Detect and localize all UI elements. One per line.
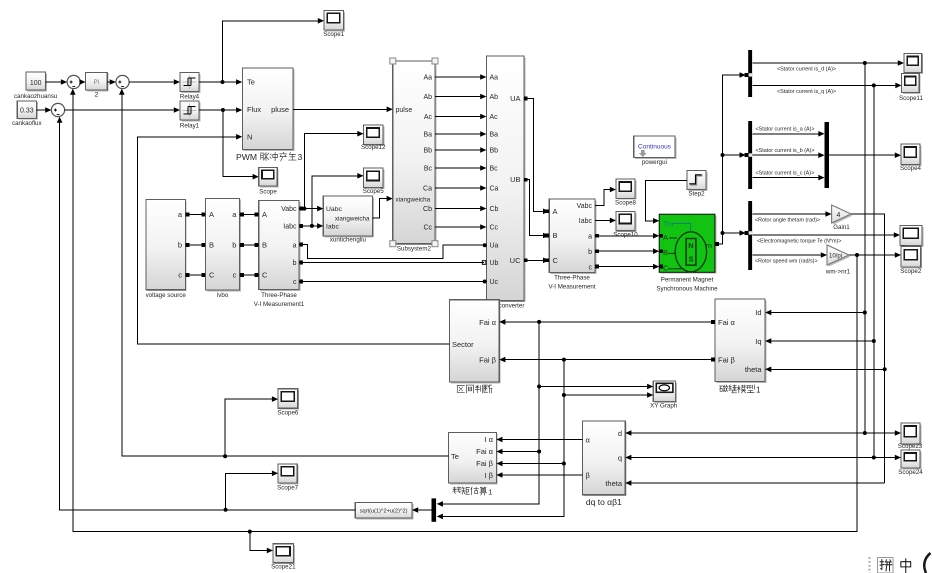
- svg-text:Scope10: Scope10: [613, 231, 638, 238]
- wire 0.33 to sum3: [37, 107, 52, 113]
- svg-text:c: c: [293, 279, 297, 286]
- wire sum3 to Relay1: [65, 107, 180, 113]
- sum junction flux (sum3): [51, 103, 64, 116]
- svg-text:sqrt(u(1)^2+u(2)^2): sqrt(u(1)^2+u(2)^2): [360, 509, 408, 515]
- svg-text:C: C: [209, 271, 215, 280]
- svg-text:Ua: Ua: [490, 243, 499, 250]
- constant cankaozhuansu value 100: [14, 72, 58, 100]
- svg-text:B: B: [663, 248, 668, 257]
- block Three-Phase V-I Measurement (second): [548, 199, 596, 290]
- wire Vabc to Scope8: [595, 187, 616, 206]
- label Scope10 over wire: [613, 231, 638, 238]
- svg-text:Relay4: Relay4: [180, 94, 200, 101]
- svg-text:Iq: Iq: [755, 337, 761, 346]
- wire rotor speed wm to gain: [753, 252, 827, 258]
- constant cankaoflux value 0.33: [12, 101, 42, 127]
- svg-text:V-I Measurement1: V-I Measurement1: [254, 301, 305, 308]
- scope Scope23: [898, 423, 923, 450]
- svg-text:a: a: [293, 242, 297, 249]
- svg-text:A: A: [553, 207, 558, 216]
- wire dq alpha to torque est I alpha: [496, 437, 582, 443]
- net stator current is_q (bus1 to Scope11b, Iq, q, Scope24): [625, 83, 901, 461]
- wire sum2 to Relay4: [129, 79, 180, 85]
- svg-text:Ac: Ac: [490, 114, 499, 121]
- svg-text:Vabc: Vabc: [577, 203, 593, 210]
- svg-text:pulse: pulse: [396, 107, 413, 114]
- svg-text:Ca: Ca: [423, 186, 432, 193]
- svg-text:Bc: Bc: [424, 166, 433, 173]
- wire phase a to converter Ua: [299, 243, 487, 259]
- svg-text:A: A: [262, 210, 267, 219]
- label <Stator current is_b (A)>: [756, 148, 815, 154]
- mux for abc currents: [825, 122, 830, 188]
- svg-text:Iabc: Iabc: [579, 218, 593, 225]
- block 转矩估算1 (torque estimator): [449, 432, 498, 496]
- svg-text:Scope4: Scope4: [900, 165, 922, 172]
- svg-text:xiangweicha: xiangweicha: [335, 216, 370, 223]
- svg-text:a: a: [588, 234, 592, 241]
- svg-text:Scope6: Scope6: [277, 409, 299, 416]
- wire electromagnetic torque to scope: [753, 232, 900, 238]
- svg-text:b: b: [178, 241, 182, 250]
- svg-text:0.33: 0.33: [20, 108, 34, 115]
- scope Scope6: [277, 389, 299, 417]
- svg-text:Scope1: Scope1: [323, 31, 345, 38]
- scope Scope8: [615, 179, 637, 206]
- bus selector 1 (is_d, is_q): [748, 50, 752, 97]
- block dq to αβ1: [582, 421, 626, 507]
- label <Electromagnetic torque Te (N*m)>: [757, 239, 841, 245]
- wires voltage source to lvbo (a,b,c): [185, 213, 205, 277]
- svg-text:<Electromagnetic torque Te (N*: <Electromagnetic torque Te (N*m)>: [757, 239, 841, 245]
- block converter: [486, 56, 525, 309]
- svg-text:b: b: [293, 260, 297, 267]
- XY Graph block: [650, 381, 678, 410]
- svg-text:Aa: Aa: [423, 75, 432, 82]
- svg-text:Uc: Uc: [490, 279, 499, 286]
- svg-text:Scope21: Scope21: [271, 564, 296, 571]
- svg-text:<Stator current is_d (A)>: <Stator current is_d (A)>: [777, 67, 836, 73]
- block lvbo (filter): [206, 198, 241, 298]
- svg-text:Fai α: Fai α: [479, 318, 497, 327]
- wire PWM pluse to Subsystem2: [293, 107, 393, 113]
- svg-text:V-I Measurement: V-I Measurement: [548, 283, 595, 290]
- PWM pulse generator block PWM脉冲产生3: [236, 68, 303, 162]
- svg-text:I α: I α: [484, 435, 493, 444]
- svg-text:m: m: [706, 241, 712, 250]
- wire Sector to PWM N input: [138, 134, 450, 344]
- wire dq beta to torque est I beta: [496, 472, 582, 478]
- svg-text:<Stator current is_q (A)>: <Stator current is_q (A)>: [777, 89, 836, 95]
- svg-text:β: β: [586, 471, 591, 480]
- wire xiangweicha to Subsystem2: [373, 196, 393, 218]
- svg-text:Te: Te: [451, 452, 459, 461]
- svg-text:Iabc: Iabc: [283, 223, 297, 230]
- wire is_b to mux: [753, 152, 825, 158]
- Fcn block sqrt(u(1)^2+u(2)^2): [355, 503, 413, 520]
- svg-text:XY Graph: XY Graph: [650, 403, 678, 410]
- svg-text:wm->nr1: wm->nr1: [825, 269, 851, 276]
- svg-text:pluse: pluse: [271, 105, 289, 114]
- svg-text:PI: PI: [94, 80, 100, 86]
- svg-text:Fai β: Fai β: [718, 356, 736, 365]
- svg-text:<Stator current is_c (A)>: <Stator current is_c (A)>: [756, 170, 815, 176]
- svg-text:UA: UA: [510, 94, 520, 103]
- net Fai alpha (flux model to sector, XY, torque est, mux): [437, 319, 715, 507]
- relay Relay4 (torque hysteresis): [180, 73, 201, 101]
- wires Subsystem2 outputs to converter (Aa..Cc): [435, 74, 486, 230]
- svg-text:Ca: Ca: [490, 186, 499, 193]
- svg-text:Three-Phase: Three-Phase: [261, 292, 297, 299]
- wire Iabc to Scope10: [595, 218, 616, 224]
- svg-text:Iabc: Iabc: [326, 223, 339, 230]
- svg-text:C: C: [262, 271, 268, 280]
- gain wm->nr1 (10/pi): [825, 245, 851, 276]
- label <Rotor speed wm (rad/s)>: [755, 259, 818, 265]
- svg-text:Ab: Ab: [490, 94, 499, 101]
- net Fai beta (flux model to sector, XY, torque est, mux): [437, 357, 715, 519]
- sum junction speed (sum1): [67, 75, 80, 88]
- wire mux to sqrt Fcn: [412, 507, 432, 513]
- svg-text:S: S: [688, 255, 693, 264]
- block xuntichengliu (flux observer): [323, 196, 374, 244]
- svg-text:xiangweicha: xiangweicha: [396, 197, 431, 204]
- svg-text:Fai β: Fai β: [479, 356, 497, 365]
- svg-text:b: b: [588, 249, 592, 256]
- svg-text:Aa: Aa: [490, 75, 499, 82]
- svg-text:Tm: Tm: [663, 221, 673, 228]
- wires V-I Measurement a,b,c to PMSM A,B,C: [595, 233, 663, 269]
- svg-text:powergui: powergui: [642, 159, 667, 166]
- wire mux to Scope4: [829, 152, 901, 158]
- svg-text:Fai β: Fai β: [476, 459, 494, 468]
- wire converter UC to V-I Measurement C: [524, 258, 549, 264]
- svg-text:cankaoflux: cankaoflux: [12, 120, 42, 127]
- wire converter UA to V-I Measurement A: [524, 97, 549, 214]
- svg-text:C: C: [663, 264, 669, 273]
- svg-text:<Rotor angle thetam (rad)>: <Rotor angle thetam (rad)>: [755, 218, 820, 224]
- svg-text:cankaozhuansu: cankaozhuansu: [14, 93, 58, 100]
- scope pair Scope11: [899, 54, 924, 103]
- svg-text:Scope5: Scope5: [363, 188, 385, 195]
- wire converter UB to V-I Measurement B: [524, 178, 549, 239]
- svg-text:Ab: Ab: [423, 94, 432, 101]
- scope Scope10: [616, 211, 636, 232]
- wire sum1 to PI: [79, 79, 85, 85]
- svg-text:voltage source: voltage source: [146, 292, 187, 299]
- wire Step2 to PMSM Tm: [646, 181, 688, 224]
- label <Rotor angle thetam (rad)>: [755, 218, 820, 224]
- svg-text:N: N: [688, 241, 693, 250]
- net Gain1 output theta*4 to flux model and dq: [625, 214, 887, 486]
- svg-text:Continuous: Continuous: [638, 144, 672, 151]
- block 区间判断 (sector detect): [450, 300, 501, 393]
- svg-text:10/pi: 10/pi: [829, 254, 842, 260]
- label <Stator current is_d (A)>: [777, 67, 836, 73]
- label <Stator current is_c (A)>: [756, 170, 815, 176]
- scope Scope12: [361, 125, 386, 151]
- wire phase c to converter Uc: [299, 280, 487, 284]
- svg-text:c: c: [178, 271, 182, 280]
- subsystem Subsystem2 (with selection handles): [390, 58, 438, 253]
- svg-text:N: N: [247, 133, 252, 142]
- svg-text:Bb: Bb: [490, 148, 499, 155]
- svg-text:q: q: [618, 454, 622, 463]
- svg-text:3: 3: [298, 152, 303, 162]
- wire Relay4 to PWM Te, branch to Scope1: [199, 18, 324, 85]
- svg-text:c: c: [233, 271, 237, 280]
- svg-text:<Rotor speed wm (rad/s)>: <Rotor speed wm (rad/s)>: [755, 259, 818, 265]
- svg-text:Subsystem2: Subsystem2: [397, 246, 432, 253]
- svg-text:Step2: Step2: [688, 191, 705, 198]
- scope Scope4: [900, 144, 922, 172]
- svg-text:Cb: Cb: [423, 206, 432, 213]
- wire phase b to converter Ub: [299, 261, 486, 265]
- PI controller block: [86, 72, 109, 98]
- svg-text:<Stator current is_a (A)>: <Stator current is_a (A)>: [756, 127, 815, 133]
- svg-text:I β: I β: [485, 471, 494, 480]
- svg-text:Ba: Ba: [490, 132, 499, 139]
- gain Gain1 (x4): [832, 205, 853, 231]
- svg-text:B: B: [209, 241, 214, 250]
- wire 100 to sum1: [46, 79, 68, 85]
- svg-text:PWM: PWM: [236, 152, 257, 162]
- svg-text:A: A: [209, 210, 214, 219]
- svg-text:α: α: [586, 436, 591, 445]
- wire speed feedback to sum1, branch Scope21: [70, 89, 857, 554]
- wire Vabc to xuntichengliu Uabc, branch Scope12: [299, 131, 363, 212]
- scope pair Scope2: [900, 225, 923, 275]
- svg-text:Scope11: Scope11: [899, 95, 924, 102]
- svg-text:lvbo: lvbo: [217, 292, 229, 299]
- svg-text:Scope12: Scope12: [361, 144, 386, 151]
- svg-text:Cb: Cb: [490, 206, 499, 213]
- svg-text:Ub: Ub: [490, 260, 499, 267]
- svg-text:theta: theta: [605, 479, 623, 488]
- wire PI to sum2: [107, 79, 116, 85]
- svg-text:Id: Id: [755, 308, 761, 317]
- svg-text:Ba: Ba: [423, 132, 432, 139]
- wire Relay1 to PWM Flux, branch to Scope: [199, 107, 259, 179]
- svg-text:Flux: Flux: [247, 105, 261, 114]
- wire flux magnitude feedback to sum3, branch Scope7: [57, 117, 356, 512]
- wire PMSM m output to bus selectors: [715, 72, 748, 246]
- wires lvbo to V-I Measurement1 (a,b,c): [240, 213, 259, 277]
- svg-text:UC: UC: [510, 256, 521, 265]
- svg-text:100: 100: [30, 80, 42, 87]
- label <Stator current is_q (A)>: [777, 89, 836, 95]
- wire rotor angle to Gain1: [753, 211, 832, 217]
- svg-text:C: C: [553, 256, 559, 265]
- svg-text:theta: theta: [745, 365, 763, 374]
- svg-text:Bb: Bb: [423, 148, 432, 155]
- svg-text:Scope23: Scope23: [898, 443, 923, 450]
- svg-text:xuntichengliu: xuntichengliu: [330, 237, 367, 244]
- bus selector 3 (rotor): [748, 201, 752, 270]
- wire is_c to mux: [753, 175, 825, 181]
- scope Scope24: [898, 450, 923, 476]
- scope Scope7: [277, 464, 299, 491]
- scope Scope5: [363, 168, 385, 195]
- svg-text:2: 2: [95, 92, 99, 99]
- mux for flux magnitude: [432, 498, 437, 521]
- svg-text:1: 1: [756, 386, 761, 395]
- svg-text:Sector: Sector: [452, 340, 474, 349]
- svg-text:Cc: Cc: [423, 225, 432, 232]
- svg-text:d: d: [618, 429, 622, 438]
- bus selector 2 (is_a,b,c): [748, 121, 752, 189]
- svg-text:Scope8: Scope8: [615, 199, 637, 206]
- powergui block (Continuous): [634, 136, 677, 166]
- svg-text:dq to αβ1: dq to αβ1: [586, 497, 622, 507]
- svg-text:Relay1: Relay1: [180, 122, 200, 129]
- net stator current is_d (bus1 to Scope11, Id, d, Scope23): [625, 60, 904, 436]
- svg-text:Bc: Bc: [490, 166, 499, 173]
- svg-text:Scope24: Scope24: [898, 469, 923, 476]
- scope Scope (flux band): [259, 167, 279, 195]
- relay Relay1 (flux hysteresis): [180, 101, 201, 129]
- svg-text:Permanent Magnet: Permanent Magnet: [661, 276, 714, 283]
- svg-text:converter: converter: [499, 302, 525, 309]
- svg-text:Synchronous Machine: Synchronous Machine: [656, 285, 718, 292]
- label <Stator current is_a (A)>: [756, 127, 815, 133]
- svg-text:Ac: Ac: [424, 114, 433, 121]
- wire gain wm->nr1 to Scope2 (dot to feedback): [849, 252, 901, 258]
- svg-text:Scope7: Scope7: [277, 484, 299, 491]
- block voltage source: [146, 200, 187, 299]
- svg-text:<Stator current is_b (A)>: <Stator current is_b (A)>: [756, 148, 815, 154]
- svg-text:1: 1: [488, 488, 492, 497]
- svg-text:UB: UB: [510, 175, 520, 184]
- svg-text:Gain1: Gain1: [833, 224, 850, 231]
- svg-text:Scope2: Scope2: [900, 268, 922, 275]
- wire Te estimate feedback to sum2, branch Scope6: [119, 89, 449, 459]
- svg-text:Te: Te: [247, 78, 255, 87]
- svg-text:4: 4: [837, 212, 841, 219]
- block 磁链模型1 (flux model): [715, 299, 767, 395]
- sum junction torque (sum2): [116, 75, 129, 88]
- svg-text:Scope: Scope: [259, 188, 277, 195]
- svg-text:Fai α: Fai α: [476, 447, 494, 456]
- svg-text:Three-Phase: Three-Phase: [554, 274, 590, 281]
- svg-text:B: B: [262, 241, 267, 250]
- scope Scope1: [323, 10, 345, 37]
- svg-text:A: A: [663, 233, 668, 242]
- scope Scope21: [271, 544, 296, 571]
- svg-text:Cc: Cc: [490, 225, 499, 232]
- svg-text:c: c: [589, 264, 593, 271]
- machine PMSM: [656, 214, 718, 292]
- step block Step2: [687, 171, 707, 198]
- svg-text:Fai α: Fai α: [718, 318, 736, 327]
- IME toolbar bottom right: [869, 553, 931, 573]
- svg-text:Vabc: Vabc: [281, 206, 297, 213]
- wire is_a to mux: [753, 131, 825, 137]
- svg-text:b: b: [232, 241, 236, 250]
- wire Iabc to xuntichengliu Iabc, branch Scope5: [299, 173, 363, 229]
- svg-text:B: B: [553, 231, 558, 240]
- svg-text:Uabc: Uabc: [326, 206, 342, 213]
- block Three-Phase V-I Measurement1: [254, 201, 305, 308]
